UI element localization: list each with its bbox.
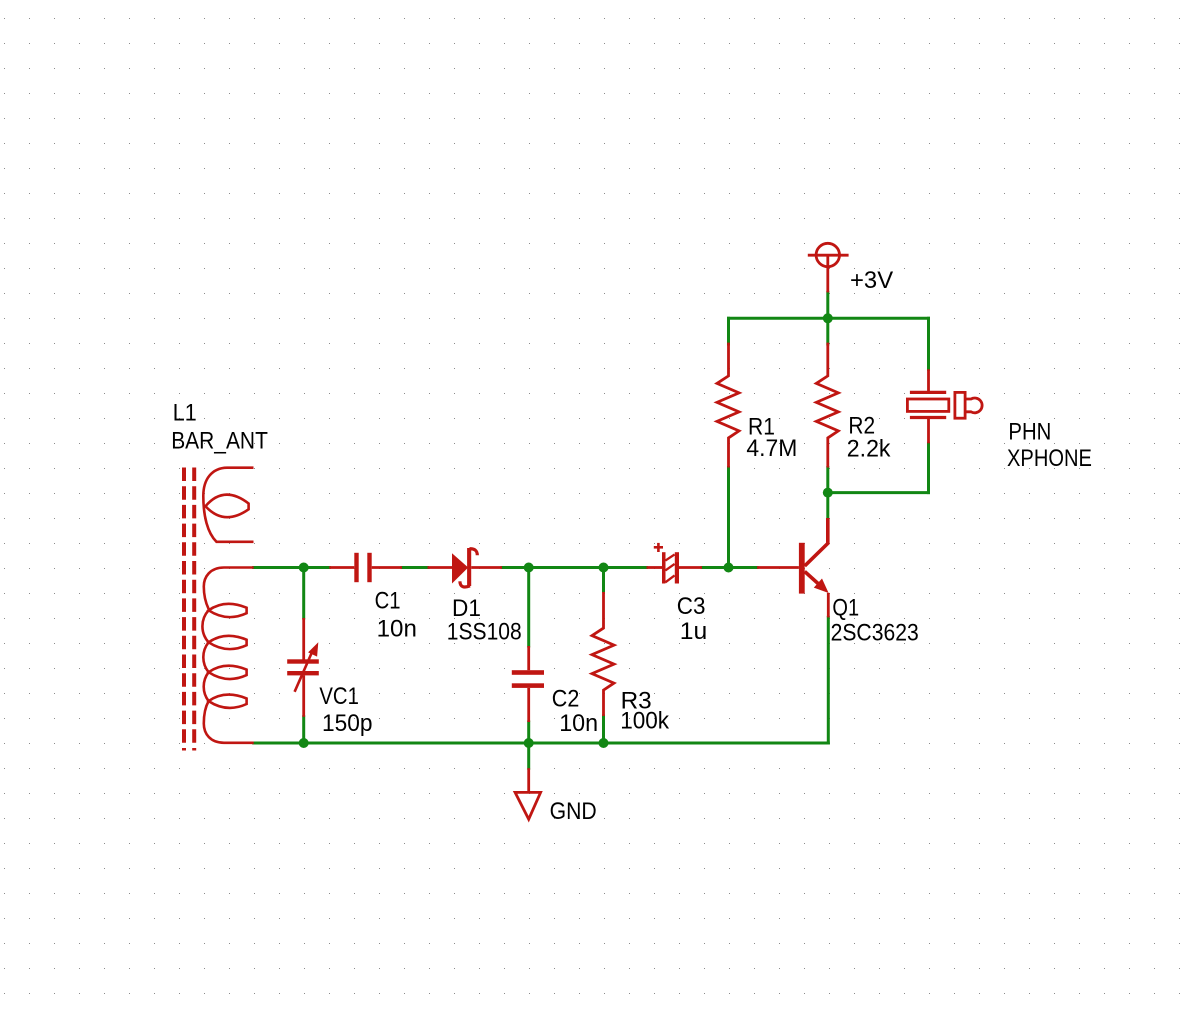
- svg-text:10n: 10n: [559, 710, 598, 737]
- svg-text:L1: L1: [173, 399, 197, 426]
- svg-text:XPHONE: XPHONE: [1007, 445, 1092, 472]
- svg-text:1SS108: 1SS108: [447, 618, 522, 645]
- svg-text:C2: C2: [552, 685, 580, 712]
- svg-text:1u: 1u: [680, 618, 708, 645]
- svg-text:GND: GND: [550, 798, 597, 825]
- svg-text:BAR_ANT: BAR_ANT: [171, 427, 268, 454]
- svg-text:VC1: VC1: [319, 683, 359, 710]
- svg-text:2SC3623: 2SC3623: [831, 620, 919, 647]
- svg-text:Q1: Q1: [832, 595, 859, 622]
- svg-text:100k: 100k: [620, 708, 670, 735]
- svg-text:PHN: PHN: [1008, 419, 1051, 446]
- svg-text:+3V: +3V: [850, 267, 894, 294]
- svg-text:10n: 10n: [377, 616, 417, 643]
- svg-text:150p: 150p: [322, 710, 373, 737]
- svg-text:C1: C1: [375, 588, 401, 615]
- svg-text:C3: C3: [677, 593, 706, 620]
- svg-text:2.2k: 2.2k: [847, 436, 891, 463]
- svg-text:4.7M: 4.7M: [746, 435, 797, 462]
